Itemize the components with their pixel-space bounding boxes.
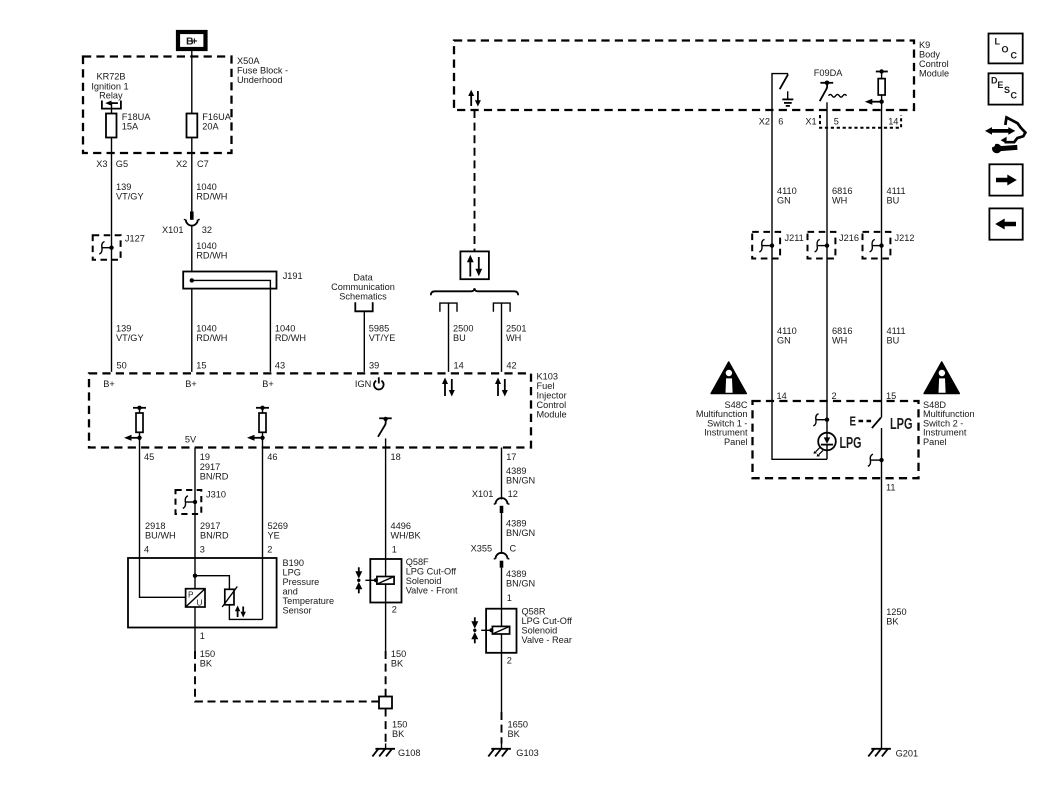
svg-text:Underhood: Underhood <box>237 75 282 85</box>
svg-text:15: 15 <box>196 361 206 371</box>
label S48D Multifunction Switch 2 - Instrument Panel <box>923 400 975 447</box>
svg-text:LPG: LPG <box>283 568 301 578</box>
svg-text:43: 43 <box>275 361 285 371</box>
svg-text:Injector: Injector <box>537 391 567 401</box>
wire X355 to Q58R <box>501 568 503 609</box>
internal ground symbol K9 <box>782 91 793 106</box>
pressure transducer P/U symbol <box>186 589 205 608</box>
label B190 LPG Pressure and Temperature Sensor <box>283 558 335 616</box>
svg-text:2501: 2501 <box>506 324 526 334</box>
svg-text:Module: Module <box>919 69 949 79</box>
svg-text:Fuel: Fuel <box>537 381 555 391</box>
svg-text:S: S <box>1004 85 1010 95</box>
svg-text:5V: 5V <box>185 435 197 445</box>
svg-text:17: 17 <box>506 452 516 462</box>
svg-text:Body: Body <box>919 50 940 60</box>
wire pin 46 down to B190 pin 2 <box>262 438 264 558</box>
svg-text:39: 39 <box>369 361 379 371</box>
svg-text:4111: 4111 <box>887 326 906 336</box>
svg-text:X355: X355 <box>471 544 492 554</box>
Data Communication Schematics label <box>331 273 395 302</box>
svg-text:X2: X2 <box>176 159 187 169</box>
svg-text:4496: 4496 <box>391 521 411 531</box>
wire S48 pin 15 top stub <box>881 401 883 418</box>
svg-text:J310: J310 <box>206 490 226 500</box>
svg-text:Module: Module <box>537 410 567 420</box>
svg-text:32: 32 <box>202 225 212 235</box>
svg-text:BN/GN: BN/GN <box>506 476 535 486</box>
connector J211 <box>752 232 804 259</box>
svg-text:O: O <box>1002 45 1009 55</box>
svg-text:2917: 2917 <box>200 462 220 472</box>
switch to ground pin X2-6 inside K9 <box>772 74 788 110</box>
caution triangle S48D <box>924 362 959 394</box>
svg-text:LPG Cut-Off: LPG Cut-Off <box>406 567 457 577</box>
Q58R solenoid coil <box>481 609 509 653</box>
svg-text:C: C <box>1011 51 1018 61</box>
svg-text:VT/GY: VT/GY <box>116 192 144 202</box>
wire pin 45 down to B190 pin 4 <box>139 438 141 558</box>
wire label 4389 BN/GN second <box>506 519 535 539</box>
svg-text:VT/YE: VT/YE <box>369 333 396 343</box>
svg-text:150: 150 <box>200 649 215 659</box>
twisted pair entry 2500 <box>440 303 457 372</box>
svg-text:X2: X2 <box>759 117 770 127</box>
svg-text:45: 45 <box>144 452 154 462</box>
svg-text:B+: B+ <box>262 379 274 389</box>
svg-text:K9: K9 <box>919 40 930 50</box>
svg-text:KR72B: KR72B <box>96 72 125 82</box>
svg-text:Communication: Communication <box>331 282 395 292</box>
svg-text:Schematics: Schematics <box>339 292 387 302</box>
svg-text:Valve - Rear: Valve - Rear <box>522 635 572 645</box>
ground G103 <box>488 744 538 759</box>
dashed wire to G103 <box>501 712 503 744</box>
svg-text:U: U <box>197 599 203 608</box>
svg-text:1040: 1040 <box>196 324 216 334</box>
switch pin 18 <box>378 417 392 437</box>
current source resistor pin 45 <box>124 406 146 441</box>
svg-text:4: 4 <box>144 545 149 555</box>
svg-text:Control: Control <box>537 400 567 410</box>
svg-text:2917: 2917 <box>200 521 220 531</box>
node IGN with power symbol <box>355 377 384 389</box>
svg-text:J212: J212 <box>895 233 915 243</box>
dashed wire K9 to data link connector <box>474 110 476 251</box>
svg-text:50: 50 <box>117 361 127 371</box>
wire label 1650 BK <box>508 720 528 740</box>
wire label 139 VT/GY upper <box>116 182 144 202</box>
svg-text:RD/WH: RD/WH <box>196 333 227 343</box>
twisted pair entry 2501 <box>493 303 510 372</box>
svg-text:BK: BK <box>886 617 899 627</box>
svg-text:5269: 5269 <box>268 521 288 531</box>
svg-text:2: 2 <box>267 545 272 555</box>
wire X1-5 down to J216 <box>826 110 828 401</box>
svg-text:19: 19 <box>200 452 210 462</box>
svg-text:4389: 4389 <box>506 569 526 579</box>
wire label 4110 GN lower <box>777 326 797 346</box>
wire label 2500 BU <box>453 324 473 344</box>
svg-text:1: 1 <box>200 631 205 641</box>
dashed wire B190 to splice <box>195 651 379 702</box>
svg-text:139: 139 <box>116 182 131 192</box>
label K9 Body Control Module <box>919 40 949 79</box>
wire label 1040 RD/WH upper <box>196 182 227 202</box>
dashed wire Q58F to splice <box>385 651 387 697</box>
svg-text:Data: Data <box>353 273 373 283</box>
wire J191 through to pin 15 <box>191 289 193 372</box>
svg-text:G108: G108 <box>398 748 420 758</box>
wire label 1040 RD/WH lower left <box>196 324 227 344</box>
svg-text:6: 6 <box>778 117 783 127</box>
connector X355 pin C <box>471 544 517 568</box>
svg-text:BK: BK <box>391 659 404 669</box>
connector J127 <box>93 234 145 260</box>
ground G201 <box>868 744 918 759</box>
svg-text:Solenoid: Solenoid <box>406 576 442 586</box>
wire label 6816 WH upper <box>832 186 852 206</box>
svg-text:Fuse Block -: Fuse Block - <box>237 66 288 76</box>
wire pin 11 to G201 <box>881 478 883 743</box>
svg-text:46: 46 <box>267 452 277 462</box>
wire Q58F pin2 solid <box>385 603 387 652</box>
svg-text:F18UA: F18UA <box>122 112 151 122</box>
svg-text:BU: BU <box>887 196 900 206</box>
Q58R valve flow arrows <box>471 617 478 643</box>
svg-text:BN/GN: BN/GN <box>506 528 535 538</box>
nav icon LOC box <box>989 34 1023 64</box>
svg-text:LPG: LPG <box>890 416 913 433</box>
svg-text:RD/WH: RD/WH <box>275 333 306 343</box>
svg-text:5985: 5985 <box>369 324 389 334</box>
dashed wire splice to G108 <box>385 709 387 744</box>
nav icon wrench with arrows <box>985 117 1025 153</box>
wire S48 pin 2 to LED <box>826 401 828 438</box>
wire X2-6 down to J211 <box>771 110 773 401</box>
svg-text:BK: BK <box>392 729 405 739</box>
splice node square <box>379 697 392 709</box>
breaker F09DA symbol pin X1-5 <box>820 81 847 111</box>
svg-text:E: E <box>997 80 1003 90</box>
wire label 1250 BK <box>886 607 906 627</box>
svg-text:BU/WH: BU/WH <box>145 531 176 541</box>
svg-text:X3: X3 <box>96 159 107 169</box>
svg-text:B190: B190 <box>283 558 304 568</box>
nav icon next arrow box <box>989 164 1022 195</box>
fuse F18UA 15A <box>106 112 151 137</box>
wire S48 pin 14 L-path to LED cathode <box>772 401 827 459</box>
svg-text:E: E <box>850 415 857 429</box>
sensor B190 box <box>128 558 277 628</box>
wire label 1040 RD/WH mid <box>196 241 227 261</box>
svg-text:1: 1 <box>392 545 397 555</box>
svg-text:GN: GN <box>777 336 791 346</box>
wire label 1040 RD/WH lower right <box>275 324 306 344</box>
switch E-LPG S48D <box>850 415 882 429</box>
bidirectional arrows pin 14 <box>442 378 455 397</box>
svg-text:F16UA: F16UA <box>202 112 231 122</box>
svg-text:1650: 1650 <box>508 720 528 730</box>
svg-text:WH: WH <box>506 333 521 343</box>
svg-text:2: 2 <box>507 656 512 666</box>
svg-text:15: 15 <box>886 391 896 401</box>
bidirectional arrows pin 42 <box>495 378 508 397</box>
thermistor symbol <box>222 587 237 608</box>
wire B190 pin1 solid <box>194 628 196 652</box>
label S48C Multifunction Switch 1 - Instrument Panel <box>696 400 748 447</box>
svg-text:20A: 20A <box>202 122 219 132</box>
svg-text:Panel: Panel <box>923 437 947 447</box>
svg-text:Pressure: Pressure <box>283 577 320 587</box>
pin X1 5 <box>805 117 838 127</box>
nav icon prev arrow box <box>989 208 1022 239</box>
wire switch to pin 11 <box>881 428 883 478</box>
svg-text:Q58R: Q58R <box>522 607 546 617</box>
wire label 139 VT/GY lower <box>116 324 144 344</box>
svg-text:1250: 1250 <box>886 607 906 617</box>
svg-text:B+: B+ <box>103 379 115 389</box>
svg-text:F09DA: F09DA <box>814 68 843 78</box>
wire label 5985 VT/YE <box>369 324 396 344</box>
svg-text:C: C <box>1011 91 1018 101</box>
svg-text:G103: G103 <box>516 748 538 758</box>
B+ battery terminal box <box>178 32 206 49</box>
svg-text:150: 150 <box>391 649 406 659</box>
svg-text:RD/WH: RD/WH <box>196 192 227 202</box>
svg-text:12: 12 <box>508 489 518 499</box>
svg-text:C7: C7 <box>197 159 209 169</box>
svg-text:LPG: LPG <box>840 435 862 452</box>
wire X101-12 to X355 <box>501 513 503 554</box>
pin X2 C7 <box>176 159 209 169</box>
wire data comm to pin 39 <box>363 311 365 372</box>
wire 14 down to J212 <box>881 110 883 401</box>
wire label 4389 BN/GN first <box>506 466 535 486</box>
wire label 4496 WH/BK <box>391 521 422 541</box>
svg-text:VT/GY: VT/GY <box>116 333 144 343</box>
wire label 2917 BN/RD upper <box>200 462 229 482</box>
data link connector box with arrows <box>460 251 489 279</box>
svg-text:RD/WH: RD/WH <box>196 251 227 261</box>
wire J191 drop to pin 43 <box>269 289 271 372</box>
wire label 4111 BU upper <box>887 186 906 206</box>
svg-text:6816: 6816 <box>832 186 852 196</box>
wire pin 17 down to X101 pin 12 <box>501 448 503 500</box>
svg-text:P: P <box>188 591 194 600</box>
svg-text:Sensor: Sensor <box>283 606 312 616</box>
connector X1 fine dashed outline <box>820 115 901 128</box>
relay KR72B contact symbol <box>102 101 121 109</box>
connector J310 <box>176 490 226 515</box>
connector J212 <box>863 232 915 259</box>
svg-text:X101: X101 <box>472 489 493 499</box>
variable arrows of thermistor <box>235 606 246 618</box>
svg-text:X50A: X50A <box>237 56 260 66</box>
svg-text:15A: 15A <box>122 122 139 132</box>
connector X101 pin 12 <box>472 489 518 513</box>
current source resistor pin 46 <box>247 406 269 441</box>
label Q58F LPG Cut-Off Solenoid Valve - Front <box>406 557 458 596</box>
svg-text:4110: 4110 <box>777 186 797 196</box>
svg-text:BK: BK <box>200 659 213 669</box>
Q58F valve flow arrows <box>355 567 362 593</box>
svg-text:42: 42 <box>506 361 516 371</box>
fuse block X50A dashed box <box>83 57 232 154</box>
module K103 dashed box <box>89 373 531 447</box>
pull-up resistor pin 14 inside K9 <box>865 69 888 110</box>
svg-text:B+: B+ <box>185 379 197 389</box>
svg-text:K103: K103 <box>537 372 558 382</box>
label Q58R LPG Cut-Off Solenoid Valve - Rear <box>522 607 573 646</box>
svg-text:J211: J211 <box>785 233 804 243</box>
connector J216 <box>808 232 859 259</box>
wire label 2917 BN/RD lower <box>200 521 229 541</box>
svg-text:Valve - Front: Valve - Front <box>406 586 458 596</box>
inline terminal on pin 11 wire <box>868 454 884 466</box>
svg-text:2918: 2918 <box>145 521 165 531</box>
inline terminal on pin 2 wire <box>813 414 829 426</box>
svg-text:BK: BK <box>508 729 521 739</box>
B190 internal wiring <box>140 558 263 628</box>
wire label 5269 YE <box>268 521 288 541</box>
relay KR72B label <box>91 72 128 101</box>
svg-text:BN/GN: BN/GN <box>506 579 535 589</box>
svg-text:11: 11 <box>886 483 896 493</box>
svg-text:Solenoid: Solenoid <box>522 626 558 636</box>
wire pin 18 down to Q58F pin 1 <box>385 438 387 559</box>
svg-text:Temperature: Temperature <box>283 596 335 606</box>
fuse F16UA 20A <box>187 112 232 137</box>
brace under data link connector <box>431 288 518 295</box>
svg-text:G201: G201 <box>896 749 918 759</box>
svg-text:LPG Cut-Off: LPG Cut-Off <box>522 616 573 626</box>
wire label 2918 BU/WH <box>145 521 176 541</box>
svg-text:BU: BU <box>453 333 466 343</box>
module K9 Body Control Module dashed box <box>454 41 914 111</box>
svg-text:C: C <box>510 544 517 554</box>
wire label 150 BK lower <box>392 720 407 740</box>
svg-text:6816: 6816 <box>832 326 852 336</box>
svg-text:G5: G5 <box>116 159 128 169</box>
svg-text:2: 2 <box>392 605 397 615</box>
svg-text:1040: 1040 <box>275 324 295 334</box>
svg-text:4389: 4389 <box>506 466 526 476</box>
svg-text:18: 18 <box>391 452 401 462</box>
bidirectional arrows inside K9 <box>468 90 481 107</box>
svg-text:5: 5 <box>834 117 839 127</box>
svg-text:2500: 2500 <box>453 324 473 334</box>
connector X101 pin 32 pass-through <box>162 211 212 235</box>
svg-text:YE: YE <box>268 531 280 541</box>
svg-text:WH: WH <box>832 336 847 346</box>
svg-text:2: 2 <box>832 391 837 401</box>
data comm bracket <box>355 302 372 311</box>
label X50A Fuse Block - Underhood <box>237 56 288 85</box>
svg-text:Relay: Relay <box>99 90 123 100</box>
caution triangle S48C <box>711 362 746 394</box>
wire relay to F18UA <box>111 103 113 113</box>
svg-text:J191: J191 <box>283 271 303 281</box>
nav icon DESC box <box>989 73 1023 104</box>
LED indicator LPG <box>814 433 836 457</box>
svg-text:1040: 1040 <box>196 182 216 192</box>
svg-text:Panel: Panel <box>724 437 748 447</box>
wire label 4111 BU lower <box>887 326 906 346</box>
svg-text:BU: BU <box>887 336 900 346</box>
svg-text:3: 3 <box>200 545 205 555</box>
svg-text:14: 14 <box>888 117 898 127</box>
svg-text:B+: B+ <box>186 36 198 48</box>
svg-text:BN/RD: BN/RD <box>200 472 229 482</box>
label K103 Fuel Injector Control Module <box>537 372 567 420</box>
valve Q58R box <box>486 609 516 653</box>
svg-text:IGN: IGN <box>355 379 371 389</box>
svg-text:14: 14 <box>454 361 464 371</box>
wire LED to bottom rail <box>826 450 828 459</box>
wire pin 19 down to J310 and B190 pin 3 <box>194 448 196 559</box>
svg-text:4110: 4110 <box>777 326 797 336</box>
svg-text:Control: Control <box>919 59 949 69</box>
svg-text:J216: J216 <box>839 233 859 243</box>
svg-text:GN: GN <box>777 196 791 206</box>
wire X101 to J191 <box>191 226 193 272</box>
wire label 150 BK left <box>200 649 215 669</box>
wire label 4110 GN upper <box>777 186 797 206</box>
svg-text:X1: X1 <box>805 117 816 127</box>
svg-text:14: 14 <box>777 391 787 401</box>
wire label 6816 WH lower <box>832 326 852 346</box>
svg-text:WH: WH <box>832 196 847 206</box>
svg-text:Q58F: Q58F <box>406 557 429 567</box>
wire label 4389 BN/GN third <box>506 569 535 589</box>
pin X2 6 <box>759 117 784 127</box>
svg-text:4389: 4389 <box>506 519 526 529</box>
ground G108 <box>372 744 420 759</box>
wire label 150 BK mid <box>391 649 406 669</box>
svg-text:L: L <box>995 37 1001 47</box>
wire B+ to F16UA fuse <box>191 51 193 114</box>
svg-text:BN/RD: BN/RD <box>200 531 229 541</box>
wire Q58R pin2 solid <box>501 653 503 712</box>
svg-text:4111: 4111 <box>887 186 906 196</box>
svg-text:WH/BK: WH/BK <box>391 531 422 541</box>
svg-text:1: 1 <box>507 593 512 603</box>
Q58F solenoid coil <box>365 559 394 603</box>
svg-text:J127: J127 <box>125 234 145 244</box>
svg-text:150: 150 <box>392 720 407 730</box>
svg-text:139: 139 <box>116 324 131 334</box>
pin X3 G5 <box>96 159 128 169</box>
svg-text:X101: X101 <box>162 225 183 235</box>
wire F18UA down through X50A edge <box>111 138 113 372</box>
wire label 2501 WH <box>506 324 526 344</box>
svg-text:and: and <box>283 587 298 597</box>
splice pack J191 <box>183 271 302 289</box>
svg-text:1040: 1040 <box>196 241 216 251</box>
valve Q58F box <box>370 559 401 603</box>
switch S48 dashed box <box>753 401 919 478</box>
wire F16UA down to X101 <box>191 138 193 212</box>
